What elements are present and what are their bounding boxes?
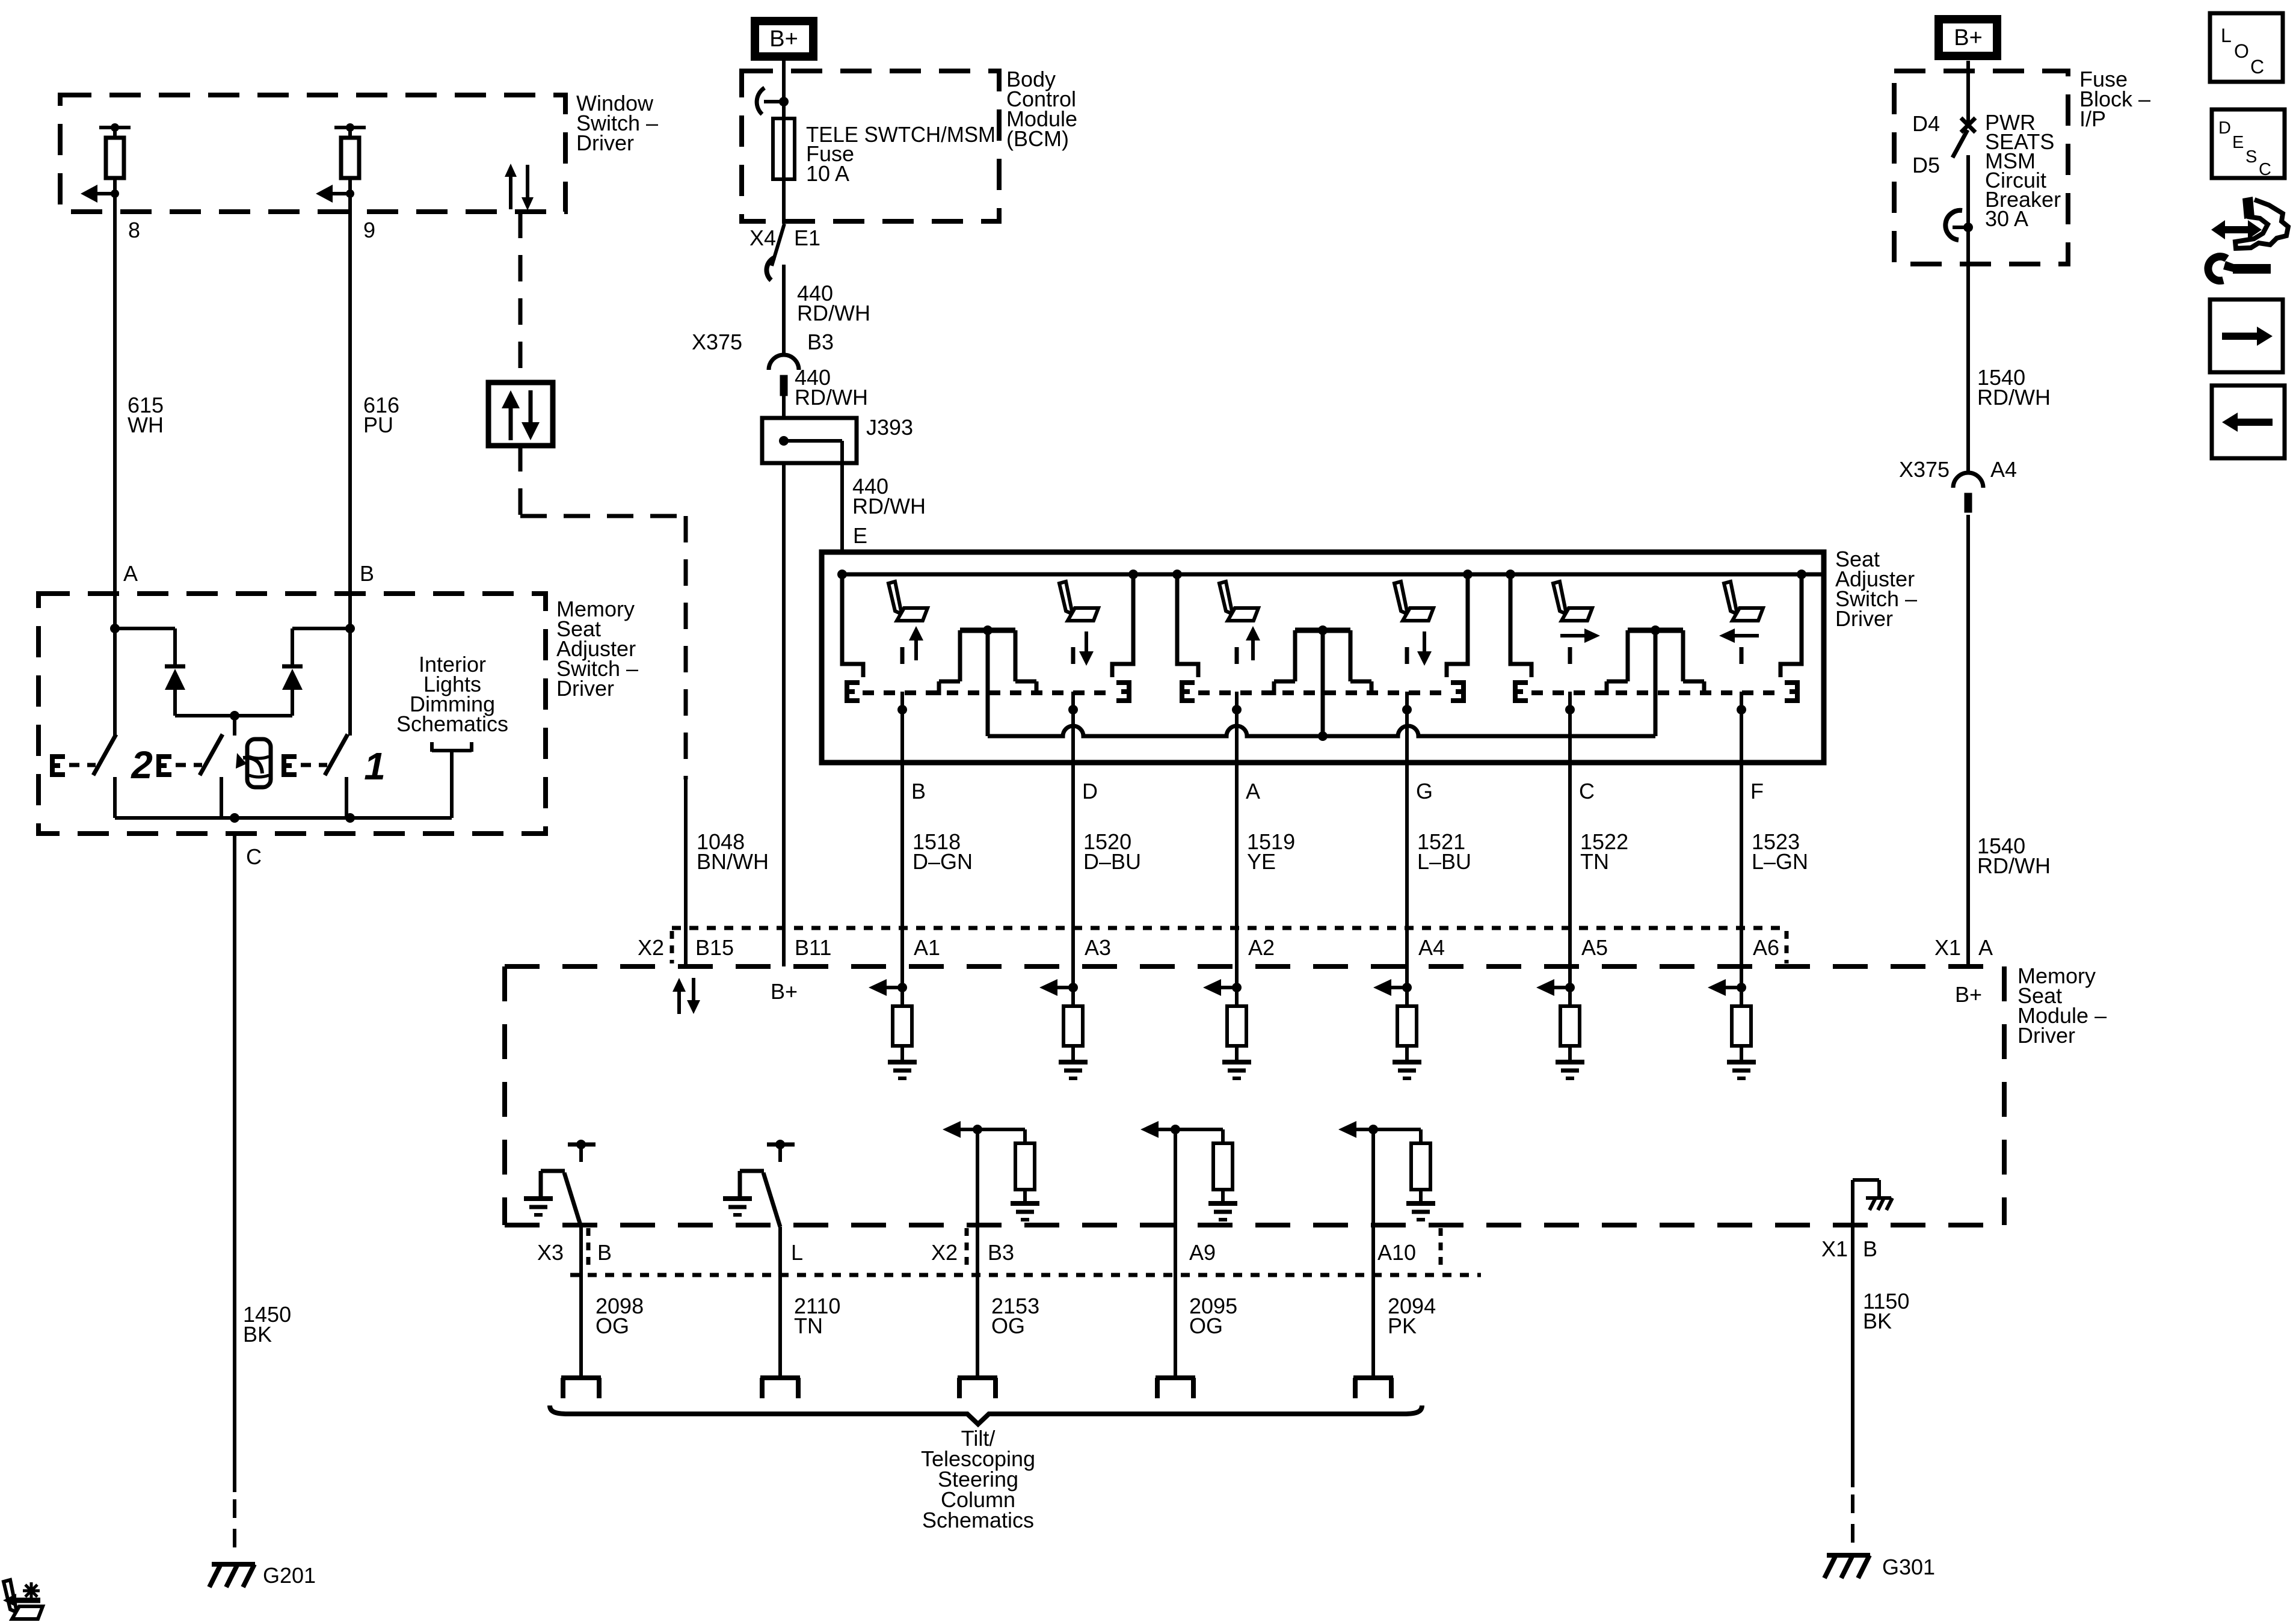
svg-text:L: L	[2221, 25, 2232, 46]
svg-text:BK: BK	[243, 1322, 272, 1347]
svg-text:8: 8	[128, 218, 140, 242]
svg-text:D–GN: D–GN	[913, 849, 973, 874]
svg-text:RD/WH: RD/WH	[795, 385, 868, 410]
svg-text:B: B	[911, 779, 926, 803]
svg-text:C: C	[1579, 779, 1595, 803]
svg-text:S: S	[2245, 147, 2257, 167]
svg-text:B: B	[1863, 1236, 1877, 1261]
svg-text:A4: A4	[1990, 457, 2017, 482]
svg-text:PU: PU	[363, 413, 393, 437]
svg-text:OG: OG	[596, 1313, 629, 1338]
svg-text:B+: B+	[769, 26, 798, 52]
svg-text:RD/WH: RD/WH	[797, 301, 870, 325]
svg-text:A9: A9	[1189, 1240, 1216, 1265]
svg-text:B: B	[360, 561, 374, 586]
svg-text:L: L	[791, 1240, 803, 1265]
svg-text:Driver: Driver	[2017, 1023, 2075, 1048]
svg-text:2: 2	[131, 743, 153, 787]
svg-text:A2: A2	[1248, 935, 1275, 960]
svg-text:X1: X1	[1934, 935, 1961, 960]
svg-text:YE: YE	[1247, 849, 1276, 874]
svg-text:OG: OG	[1189, 1313, 1223, 1338]
svg-text:1: 1	[364, 745, 386, 788]
svg-text:C: C	[2250, 56, 2264, 78]
svg-text:X375: X375	[692, 330, 742, 354]
svg-text:C: C	[2259, 160, 2271, 179]
svg-text:B+: B+	[771, 979, 798, 1004]
svg-text:TN: TN	[1580, 849, 1609, 874]
svg-text:BN/WH: BN/WH	[697, 849, 769, 874]
svg-text:B: B	[597, 1240, 612, 1265]
svg-text:RD/WH: RD/WH	[1977, 385, 2051, 410]
svg-text:F: F	[1750, 779, 1764, 803]
svg-text:G201: G201	[263, 1563, 316, 1588]
svg-text:X3: X3	[537, 1240, 564, 1265]
svg-text:D5: D5	[1912, 153, 1940, 177]
svg-text:A: A	[1246, 779, 1260, 803]
svg-text:B15: B15	[695, 935, 734, 960]
svg-text:J393: J393	[866, 415, 913, 440]
svg-text:Driver: Driver	[1835, 606, 1893, 631]
svg-text:A1: A1	[914, 935, 940, 960]
svg-text:30 A: 30 A	[1985, 206, 2028, 231]
svg-text:PK: PK	[1388, 1313, 1417, 1338]
svg-text:A5: A5	[1581, 935, 1608, 960]
svg-text:D–BU: D–BU	[1083, 849, 1141, 874]
svg-text:Driver: Driver	[576, 131, 634, 155]
svg-text:TN: TN	[794, 1313, 823, 1338]
svg-text:X4: X4	[749, 226, 776, 250]
svg-text:L–GN: L–GN	[1752, 849, 1808, 874]
svg-text:E: E	[2232, 133, 2244, 152]
svg-text:A: A	[123, 561, 138, 586]
svg-text:B11: B11	[795, 935, 831, 960]
svg-text:(BCM): (BCM)	[1006, 126, 1069, 151]
svg-text:E1: E1	[794, 226, 820, 250]
svg-text:Schematics: Schematics	[922, 1508, 1034, 1532]
svg-text:O: O	[2234, 40, 2249, 62]
svg-text:Schematics: Schematics	[396, 711, 508, 736]
svg-text:G301: G301	[1882, 1555, 1935, 1579]
svg-text:RD/WH: RD/WH	[1977, 853, 2051, 878]
svg-text:L–BU: L–BU	[1417, 849, 1471, 874]
svg-text:B+: B+	[1954, 25, 1983, 51]
svg-text:D4: D4	[1912, 111, 1940, 136]
svg-text:E: E	[853, 523, 867, 548]
svg-text:X2: X2	[931, 1240, 958, 1265]
svg-text:A6: A6	[1753, 935, 1779, 960]
svg-text:B3: B3	[807, 330, 834, 354]
svg-text:D: D	[1082, 779, 1098, 803]
svg-text:10 A: 10 A	[806, 161, 849, 186]
svg-text:A4: A4	[1418, 935, 1445, 960]
svg-text:G: G	[1416, 779, 1433, 803]
svg-text:C: C	[246, 844, 262, 869]
svg-text:I/P: I/P	[2079, 106, 2106, 131]
svg-text:X375: X375	[1899, 457, 1950, 482]
svg-text:Driver: Driver	[556, 676, 614, 701]
svg-text:OG: OG	[991, 1313, 1025, 1338]
svg-text:WH: WH	[128, 413, 164, 437]
svg-text:B3: B3	[988, 1240, 1014, 1265]
svg-text:A3: A3	[1085, 935, 1111, 960]
svg-text:A: A	[1978, 935, 1993, 960]
svg-text:B+: B+	[1955, 982, 1982, 1007]
svg-text:9: 9	[363, 218, 375, 242]
svg-text:BK: BK	[1863, 1309, 1892, 1333]
svg-text:X1: X1	[1821, 1236, 1848, 1261]
svg-text:A10: A10	[1377, 1240, 1416, 1265]
svg-text:X2: X2	[638, 935, 664, 960]
svg-text:D: D	[2218, 118, 2231, 138]
svg-text:RD/WH: RD/WH	[852, 494, 926, 518]
